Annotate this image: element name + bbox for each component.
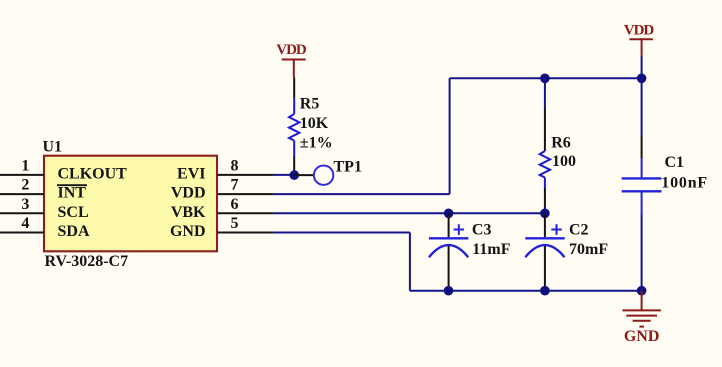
pin 8 (EVI) stub (217, 174, 273, 176)
junction bottom rail at C1/GND (637, 286, 647, 296)
R5 tolerance ±1% (300, 135, 333, 152)
pin 4 (SDA) wire stub (0, 232, 44, 234)
svg-text:8: 8 (231, 158, 239, 175)
svg-text:GND: GND (624, 328, 660, 345)
wire VDD top rail y=78.3 (450, 77, 642, 79)
junction VBK at C3 (444, 209, 454, 219)
svg-text:10K: 10K (300, 115, 329, 132)
test point TP1 circle (314, 166, 333, 185)
pin 2 number (21, 177, 29, 194)
svg-text:7: 7 (231, 177, 239, 194)
power port VDD (above R5) (276, 42, 307, 77)
svg-text:EVI: EVI (177, 166, 205, 183)
TP1 label (334, 158, 362, 175)
C1 designator (665, 154, 685, 171)
junction top rail at R6 (540, 74, 550, 84)
junction at R5 / pin 8 / TP1 (290, 170, 300, 180)
wire pin6 (VBK net) horizontal (273, 212, 545, 214)
wire pin8 to junction (273, 174, 294, 176)
svg-text:CLKOUT: CLKOUT (58, 166, 128, 183)
svg-text:70mF: 70mF (569, 241, 608, 258)
pin 6 (VBK) stub (217, 212, 273, 214)
power port VDD (top right) (624, 23, 655, 56)
svg-text:C1: C1 (665, 154, 685, 171)
test point TP1 pin (294, 174, 313, 176)
pin 1 number (21, 158, 29, 175)
svg-text:VDD: VDD (624, 23, 655, 39)
pin 5 name GND (170, 223, 206, 240)
svg-text:11mF: 11mF (472, 241, 510, 258)
R5 designator (300, 96, 320, 113)
svg-text:U1: U1 (43, 139, 63, 156)
R6 value 100 (552, 153, 576, 170)
pin 7 (VDD) stub (217, 193, 273, 195)
resistor R5 (289, 77, 299, 175)
C3 value 11mF (472, 241, 510, 258)
junction bottom rail at C2 (540, 286, 550, 296)
svg-text:C2: C2 (569, 221, 589, 238)
svg-text:RV-3028-C7: RV-3028-C7 (45, 253, 129, 270)
resistor R6 (540, 78, 550, 213)
svg-text:4: 4 (21, 215, 29, 232)
IC U1 body (44, 156, 217, 252)
pin 8 number (231, 158, 239, 175)
svg-text:5: 5 (231, 215, 239, 232)
capacitor C1 (622, 78, 662, 290)
pin 5 (GND) stub (217, 232, 273, 234)
svg-text:2: 2 (21, 177, 29, 194)
ground symbol GND (622, 291, 661, 327)
pin 2 name INT (active low) (57, 185, 87, 202)
pin 4 number (21, 215, 29, 232)
svg-text:SCL: SCL (58, 204, 89, 221)
GND net label (624, 328, 660, 345)
capacitor C2 (polarized) (525, 213, 564, 290)
pin 2 (INT) wire stub (0, 193, 44, 195)
junction VBK at C2/R6 (540, 209, 550, 219)
wire pin5 (GND net) horizontal (273, 232, 410, 234)
pin 7 number (231, 177, 239, 194)
svg-text:100nF: 100nF (661, 174, 708, 191)
svg-text:C3: C3 (472, 221, 492, 238)
svg-text:±1%: ±1% (300, 135, 333, 152)
pin 3 name SCL (58, 204, 89, 221)
wire GND bottom rail y=290.7 (410, 290, 642, 292)
C1 value 100nF (661, 174, 708, 191)
pin 1 (CLKOUT) wire stub (0, 174, 44, 176)
svg-text:R5: R5 (300, 96, 320, 113)
IC U1 designator (43, 139, 63, 156)
svg-text:VDD: VDD (276, 42, 307, 58)
svg-text:1: 1 (21, 158, 29, 175)
wire VDD port to top rail (641, 56, 643, 79)
svg-text:INT: INT (58, 185, 87, 202)
svg-text:6: 6 (231, 196, 239, 213)
C2 designator (569, 221, 589, 238)
R6 designator (551, 134, 571, 151)
svg-text:GND: GND (170, 223, 206, 240)
R5 value 10K (300, 115, 329, 132)
C3 designator (472, 221, 492, 238)
junction bottom rail at C3 (444, 286, 454, 296)
pin 1 name CLKOUT (58, 166, 128, 183)
svg-text:3: 3 (21, 196, 29, 213)
svg-text:VDD: VDD (171, 185, 206, 202)
pin 3 number (21, 196, 29, 213)
pin 8 name EVI (177, 166, 205, 183)
pin 4 name SDA (58, 223, 90, 240)
pin 6 name VBK (171, 204, 206, 221)
C2 value 70mF (569, 241, 608, 258)
wire pin7 (VDD net) horizontal (273, 193, 450, 195)
pin 7 name VDD (171, 185, 206, 202)
pin 5 number (231, 215, 239, 232)
pin 3 (SCL) wire stub (0, 212, 44, 214)
wire GND net vertical drop x=409.9 (409, 233, 411, 291)
IC U1 part number RV-3028-C7 (45, 253, 129, 270)
svg-text:R6: R6 (551, 134, 571, 151)
pin 6 number (231, 196, 239, 213)
capacitor C3 (polarized) (429, 213, 468, 290)
svg-text:VBK: VBK (171, 204, 206, 221)
svg-text:TP1: TP1 (334, 158, 362, 175)
svg-text:SDA: SDA (58, 223, 90, 240)
svg-text:100: 100 (552, 153, 576, 170)
wire VDD net vertical riser x=449.6 (449, 78, 451, 194)
junction top rail at C1/VDD (637, 74, 647, 84)
